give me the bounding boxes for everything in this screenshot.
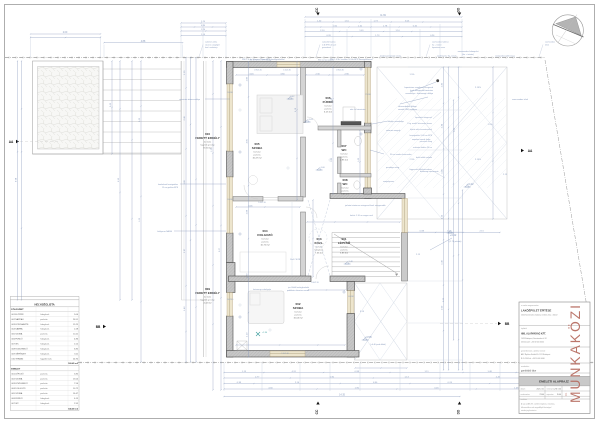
svg-text:parafogo reteg: parafogo reteg — [386, 166, 399, 169]
svg-text:parketta: parketta — [40, 382, 48, 385]
svg-text:parketta: parketta — [340, 248, 348, 251]
svg-text:WC: WC — [342, 148, 348, 152]
svg-text:1.5%: 1.5% — [488, 124, 493, 126]
svg-text:lefolyo osszefolyo: lefolyo osszefolyo — [388, 121, 405, 123]
extension lines bottom dims — [223, 363, 225, 392]
svg-text:1.85 m2: 1.85 m2 — [341, 193, 350, 195]
svg-text:(+0.40 jarda fölött): (+0.40 jarda fölött) — [370, 343, 386, 346]
svg-text:003 KÖZLEKEDŐ: 003 KÖZLEKEDŐ — [12, 382, 29, 385]
window above stairs wall — [402, 199, 408, 233]
svg-text:2.5%: 2.5% — [410, 159, 415, 161]
mid-left vertical chains — [131, 61, 133, 300]
svg-text:15.25: 15.25 — [73, 324, 79, 326]
svg-text:EMELET: EMELET — [11, 369, 21, 371]
roof drain dot — [436, 79, 439, 82]
leader lines — [205, 98, 230, 100]
svg-text:É-04: É-04 — [557, 393, 561, 396]
wall: interior vertical 005/006 — [301, 68, 306, 123]
svg-text:6.15 m2: 6.15 m2 — [324, 111, 333, 113]
terrace step dim lines — [111, 61, 113, 154]
svg-text:001 LÉPCSŐ: 001 LÉPCSŐ — [12, 372, 24, 375]
svg-text:lasd: reszletrajz: lasd: reszletrajz — [205, 46, 218, 49]
svg-text:attic fal vizszintes: attic fal vizszintes — [350, 108, 366, 111]
faint line in 004 — [291, 202, 293, 276]
svg-text:WC: WC — [343, 182, 349, 186]
far right vertical chain — [492, 67, 494, 219]
svg-text:M 1:50: M 1:50 — [556, 389, 562, 391]
window in top wall — [277, 62, 300, 67]
svg-text:É 01-2345 tel: +36 20 000 000: É 01-2345 tel: +36 20 000 0000 — [521, 357, 545, 360]
svg-text:hidegburk.: hidegburk. — [40, 339, 50, 341]
svg-text:EMELETI ALAPRAJZ: EMELETI ALAPRAJZ — [539, 380, 569, 384]
svg-text:parketta: parketta — [340, 155, 348, 158]
svg-text:1039 Budapest, Szentendrei út: 1039 Budapest, Szentendrei út 32. — [521, 337, 548, 340]
desk room 004 — [240, 252, 286, 272]
svg-text:gerendaval: gerendaval — [322, 47, 331, 49]
wall: 003-002 horizontal right part — [330, 276, 365, 282]
svg-text:a munka megnevezése:: a munka megnevezése: — [521, 305, 539, 307]
svg-text:0.90/2.10: 0.90/2.10 — [311, 282, 319, 284]
svg-text:hidegburk.: hidegburk. — [40, 348, 50, 350]
svg-text:szomszedos lakoepulet: szomszedos lakoepulet — [458, 50, 479, 53]
svg-text:BB: BB — [96, 325, 101, 329]
svg-text:1.00/2.10: 1.00/2.10 — [258, 202, 266, 204]
stairs treads room 001 — [332, 232, 400, 234]
svg-text:epulet kontur fsz. vonala: epulet kontur fsz. vonala — [437, 54, 456, 57]
windows right wall — [365, 68, 371, 124]
svg-text:5.85 m2: 5.85 m2 — [340, 252, 349, 254]
svg-text:parketta: parketta — [40, 392, 48, 395]
wall: 007/008 divider — [340, 174, 371, 178]
svg-text:parketta: parketta — [40, 387, 48, 390]
corridor diagonal dashes — [308, 200, 330, 276]
wall: 005/004 horizontal — [233, 197, 263, 202]
svg-text:meglevo terepszint vonala: meglevo terepszint vonala — [380, 54, 401, 57]
svg-text:010 TERASZ: 010 TERASZ — [12, 357, 25, 360]
horizontal chains inside — [236, 74, 298, 76]
svg-text:2.95 m2: 2.95 m2 — [340, 159, 349, 161]
svg-text:16.47: 16.47 — [73, 393, 79, 395]
bed room 005 — [257, 95, 303, 134]
section marker AA right — [521, 149, 524, 152]
svg-text:DD: DD — [457, 7, 461, 12]
terrace steps — [103, 68, 181, 70]
svg-text:fagyálló burk.: fagyálló burk. — [40, 358, 52, 360]
wall: WC left vertical — [338, 130, 342, 147]
svg-text:+2.94: +2.94 — [262, 332, 268, 334]
svg-text:szomszedos telek hatara: szomszedos telek hatara — [495, 54, 515, 57]
svg-text:146.48 m2: 146.48 m2 — [68, 407, 79, 410]
svg-text:vasbeton attika: vasbeton attika — [205, 41, 217, 44]
svg-text:007 WC: 007 WC — [12, 403, 20, 405]
svg-text:002 SZOBA: 002 SZOBA — [12, 377, 23, 380]
svg-text:150/240: 150/240 — [227, 299, 234, 301]
svg-text:2000 Szentendre, Kálvária út 1: 2000 Szentendre, Kálvária út 162/a hrsz.… — [521, 314, 557, 317]
svg-text:fsz + tetoter: fsz + tetoter — [432, 43, 442, 46]
svg-text:007 WC: 007 WC — [12, 344, 20, 346]
svg-text:munkaszám:: munkaszám: — [521, 394, 531, 396]
svg-text:90/240: 90/240 — [227, 199, 233, 201]
chimney notch — [364, 188, 372, 194]
svg-text:burkolat: burkolat — [340, 153, 348, 156]
top-right dim chains — [305, 16, 462, 18]
svg-text:CC: CC — [315, 7, 319, 12]
svg-text:008 KÖZLEKEDŐ: 008 KÖZLEKEDŐ — [12, 347, 29, 350]
svg-text:burkolat: burkolat — [204, 296, 212, 299]
windows in left wall — [227, 84, 233, 151]
door arcs — [244, 185, 258, 199]
svg-text:parketta: parketta — [324, 107, 332, 110]
svg-text:párazáró réteg: párazáró réteg — [420, 140, 432, 143]
window bottom wall — [270, 351, 305, 357]
svg-text:burkolat: burkolat — [253, 151, 261, 154]
svg-text:hidegburk.: hidegburk. — [40, 324, 50, 326]
svg-text:(-1.76 jarhato): (-1.76 jarhato) — [449, 240, 462, 243]
svg-text:15 cm grafitos EPS: 15 cm grafitos EPS — [162, 186, 179, 189]
svg-text:vasbeton födém 20 cm: vasbeton födém 20 cm — [413, 146, 433, 149]
svg-text:lapostetö rétegrend:: lapostetö rétegrend: — [415, 116, 432, 119]
svg-text:hidegburk.: hidegburk. — [40, 329, 50, 331]
svg-text:jarhato tetoterasz retegrend l: jarhato tetoterasz retegrend lasd: reteg… — [344, 204, 386, 207]
extension lines top dims — [304, 19, 306, 57]
svg-text:0.90/2.40: 0.90/2.40 — [336, 70, 344, 72]
svg-text:rajzszám:: rajzszám: — [547, 393, 555, 396]
svg-text:parketta: parketta — [40, 333, 48, 336]
svg-text:24.90: 24.90 — [73, 358, 79, 360]
svg-text:vizorros szegellyel: vizorros szegellyel — [205, 44, 220, 46]
svg-text:004 DOLGOZÓ: 004 DOLGOZÓ — [12, 387, 26, 390]
roof diagonals — [377, 67, 507, 219]
wall stub below 002 right — [347, 282, 355, 291]
compass north symbol — [552, 15, 583, 46]
svg-text:10.72 m2: 10.72 m2 — [260, 244, 270, 246]
svg-text:002 NAPPALI: 002 NAPPALI — [12, 318, 25, 321]
wall: top exterior — [227, 62, 372, 68]
svg-text:(fsz + tetoter): (fsz + tetoter) — [462, 53, 474, 56]
svg-text:10.72: 10.72 — [73, 388, 79, 390]
door frame lines 005/004 — [263, 197, 278, 199]
svg-text:szomszedos lakohaz: szomszedos lakohaz — [432, 42, 449, 44]
svg-text:LÉPCSŐ: LÉPCSŐ — [338, 240, 351, 245]
svg-text:tervfázis:: tervfázis: — [521, 398, 528, 401]
svg-text:2 db IPE 140 acel: 2 db IPE 140 acel — [322, 44, 337, 46]
vanity bar bathroom — [341, 122, 361, 126]
room list table — [10, 295, 79, 297]
svg-text:15.04 m2: 15.04 m2 — [293, 317, 303, 319]
svg-text:hoszigetelés 2x10 cm EPS: hoszigetelés 2x10 cm EPS — [410, 134, 433, 137]
title block frame — [519, 302, 590, 414]
svg-text:munkatárs:: munkatárs: — [521, 365, 530, 368]
svg-text:hidegburk.: hidegburk. — [40, 403, 50, 405]
svg-text:lefolyocso NA100: lefolyocso NA100 — [157, 230, 172, 233]
svg-text:16.47 m2: 16.47 m2 — [252, 157, 262, 159]
balcony edge lines — [181, 61, 183, 300]
svg-text:villamvedelem: felfogo: villamvedelem: felfogo — [398, 106, 417, 108]
svg-text:005 SZOBA: 005 SZOBA — [12, 392, 23, 395]
svg-text:függesztett lefolyórendszer: függesztett lefolyórendszer — [409, 168, 432, 171]
svg-text:1.50/2.40: 1.50/2.40 — [283, 70, 291, 72]
title block date/scale rows — [544, 386, 546, 399]
svg-text:AA: AA — [9, 140, 14, 144]
svg-text:ABC Építész Stúdió Kft. 1111 B: ABC Építész Stúdió Kft. 1111 Budapest — [521, 353, 551, 356]
small corner crosses — [238, 109, 242, 111]
svg-text:parketta: parketta — [341, 189, 349, 192]
title block drawing name band — [519, 376, 590, 386]
svg-text:11.69: 11.69 — [380, 15, 386, 17]
lower terrace outline — [355, 283, 408, 360]
section marker BB right — [498, 322, 501, 325]
svg-text:50 cm szeles kavicsolas: 50 cm szeles kavicsolas — [390, 154, 411, 156]
svg-text:parketta: parketta — [40, 377, 48, 380]
wall: 006/007 divider — [318, 126, 371, 130]
svg-text:005 SZOBA: 005 SZOBA — [12, 333, 23, 336]
wall: stairs top horizontal — [330, 194, 405, 199]
svg-text:jav. 60x60 melegburkolat: jav. 60x60 melegburkolat — [287, 286, 309, 289]
svg-text:+3.42: +3.42 — [450, 233, 457, 237]
svg-text:szegelyezes: szegelyezes — [383, 181, 394, 183]
svg-text:burkolat: burkolat — [324, 105, 332, 108]
extension lines right dims — [408, 66, 462, 68]
bottom dim chains — [224, 372, 556, 374]
window sill marks blue — [238, 84, 242, 86]
svg-text:szomszedos telek: szomszedos telek — [512, 98, 528, 101]
svg-text:burkolat: burkolat — [294, 311, 302, 314]
terrace hatched area — [33, 61, 104, 154]
left vertical dim chains — [17, 61, 19, 300]
chains through rooms — [248, 62, 250, 358]
svg-text:DD: DD — [457, 409, 461, 414]
svg-text:ketszarnyu erkelyajto: ketszarnyu erkelyajto — [253, 288, 271, 291]
svg-text:hidegburk.: hidegburk. — [40, 314, 50, 316]
svg-text:parketta: parketta — [40, 372, 48, 375]
svg-text:2021. 03.: 2021. 03. — [537, 389, 545, 391]
svg-text:2.10/2.40: 2.10/2.40 — [281, 353, 289, 355]
flat roof outline right — [377, 67, 507, 219]
svg-text:FÖLDSZINT: FÖLDSZINT — [11, 308, 24, 311]
svg-text:16x17.6/28: 16x17.6/28 — [290, 259, 301, 261]
svg-text:dátum:: dátum: — [521, 388, 527, 391]
svg-text:gombkötő tibor: gombkötő tibor — [521, 370, 536, 373]
svg-text:30 vb. fal + 15 EPS hoszig.: 30 vb. fal + 15 EPS hoszig. — [250, 59, 272, 61]
svg-text:hidegburk.: hidegburk. — [40, 398, 50, 400]
svg-text:006 FÜRDŐ: 006 FÜRDŐ — [12, 397, 23, 400]
svg-text:CC: CC — [315, 409, 319, 414]
svg-text:KÖZL.: KÖZL. — [315, 240, 324, 245]
svg-text:D.: D. — [564, 392, 568, 395]
svg-text:75/240: 75/240 — [365, 94, 371, 96]
inner-left vertical chains — [212, 61, 214, 390]
svg-text:AA: AA — [528, 149, 533, 153]
teal level mark 002 — [256, 332, 260, 336]
section trace lines — [20, 141, 60, 143]
svg-text:15.04: 15.04 — [73, 378, 79, 380]
svg-text:parketta: parketta — [40, 318, 48, 321]
svg-text:BB: BB — [505, 322, 510, 326]
svg-text:telek: telek — [545, 43, 549, 46]
svg-text:4.42 m2: 4.42 m2 — [204, 302, 213, 304]
svg-text:004 KAMRA: 004 KAMRA — [12, 328, 24, 331]
svg-text:R90 1.0 vb. koszoru 10 cm EPS: R90 1.0 vb. koszoru 10 cm EPS hoszigetel… — [330, 58, 373, 61]
svg-text:009 GÉPÉSZET: 009 GÉPÉSZET — [12, 352, 27, 355]
svg-text:belső oldali vakolat: belső oldali vakolat — [416, 156, 432, 159]
svg-text:parketta: parketta — [294, 313, 302, 316]
svg-text:építtető:: építtető: — [521, 327, 528, 330]
svg-text:26.51: 26.51 — [73, 319, 79, 321]
svg-text:2 rtg. modif. bitumenes lemez: 2 rtg. modif. bitumenes lemez — [407, 122, 432, 125]
svg-text:HNL ALAPANYAG KFT.: HNL ALAPANYAG KFT. — [521, 333, 546, 336]
wall: left exterior segments — [227, 62, 234, 85]
svg-text:006 FÜRDŐ: 006 FÜRDŐ — [12, 338, 23, 341]
svg-text:hidegburk.: hidegburk. — [40, 344, 50, 346]
bed room 002 — [248, 291, 284, 324]
svg-text:2.15%: 2.15% — [475, 87, 481, 89]
svg-text:160.45 m2: 160.45 m2 — [68, 362, 79, 365]
property fence line top — [5, 57, 545, 59]
svg-text:vizszintes tetoosszefolyo: vizszintes tetoosszefolyo — [179, 98, 200, 101]
crossed shaft box 002 — [237, 341, 247, 350]
svg-text:1.5%: 1.5% — [410, 74, 415, 76]
svg-text:osszefolyo + biztonsagi tulfol: osszefolyo + biztonsagi tulfolyo — [405, 92, 434, 95]
svg-text:DOLGOZÓ: DOLGOZÓ — [257, 232, 273, 237]
svg-text:parketta: parketta — [253, 153, 261, 156]
wall right of 002 lower — [347, 314, 355, 358]
right area vertical chains — [443, 67, 445, 370]
svg-text:SZOBA: SZOBA — [293, 306, 304, 310]
svg-text:burkolat: burkolat — [341, 187, 349, 190]
svg-text:003 KONYHA-ÉTK.: 003 KONYHA-ÉTK. — [12, 323, 30, 326]
svg-text:21/04: 21/04 — [540, 394, 545, 396]
svg-text:R90 1.0 vb. koszoru: R90 1.0 vb. koszoru — [318, 59, 334, 61]
section marker DD bottom — [458, 402, 461, 405]
svg-text:generáltervező - építész terve: generáltervező - építész tervező: — [521, 349, 546, 352]
svg-text:001 ELŐTÉR: 001 ELŐTÉR — [12, 313, 24, 316]
svg-text:burkolat: burkolat — [261, 238, 269, 241]
svg-text:90/240: 90/240 — [227, 92, 233, 94]
stairs walk line — [334, 234, 398, 274]
chair room 005 — [249, 176, 258, 185]
horizontal chain right of stairs — [408, 231, 500, 233]
svg-text:burkolat: burkolat — [204, 141, 212, 144]
svg-text:7.56 m2: 7.56 m2 — [315, 252, 324, 254]
svg-text:4.88: 4.88 — [141, 41, 146, 43]
svg-text:padlofutes kiosztas szerint: padlofutes kiosztas szerint — [287, 289, 310, 292]
wall: 004/002 horizontal — [229, 276, 312, 282]
svg-text:vizorros szegely: vizorros szegely — [386, 130, 400, 132]
svg-text:14.35: 14.35 — [339, 395, 345, 397]
svg-text:valaszfal kivaltas: valaszfal kivaltas — [322, 41, 336, 44]
section marker CC bottom — [316, 402, 319, 405]
svg-text:FEDETT ERKÉLY: FEDETT ERKÉLY — [195, 135, 219, 140]
property fence line bottom — [78, 362, 594, 364]
level marker flags — [448, 231, 452, 233]
svg-text:parketta: parketta — [261, 240, 269, 243]
svg-text:MUNKAKÖZI: MUNKAKÖZI — [566, 303, 583, 403]
bath fixtures — [343, 107, 355, 121]
top mid-left chains — [181, 22, 226, 24]
svg-text:SZOBA: SZOBA — [252, 146, 263, 150]
svg-text:FEDETT ERKÉLY: FEDETT ERKÉLY — [195, 290, 219, 295]
svg-text:lapostetos resze: lapostetos resze — [432, 46, 445, 49]
balcony railing — [203, 61, 205, 357]
svg-text:60/240: 60/240 — [348, 296, 354, 298]
window right wall 002 — [348, 291, 355, 314]
wall: bottom exterior — [227, 351, 360, 358]
svg-text:burkolat: burkolat — [340, 246, 348, 249]
property boundary diagonal right — [545, 60, 587, 307]
svg-text:lejtést adó cementesztrich: lejtést adó cementesztrich — [410, 128, 432, 131]
svg-text:szomszedos: szomszedos — [545, 42, 555, 44]
svg-text:telefonszám: +36 30 000 0000: telefonszám: +36 30 000 0000 — [521, 341, 544, 344]
stairs right wall lined — [402, 233, 408, 282]
top-left dim chain — [31, 33, 101, 35]
svg-text:0.90/2.40: 0.90/2.40 — [254, 70, 262, 72]
svg-text:2.00: 2.00 — [63, 32, 68, 34]
balcony bottom connector — [182, 299, 207, 301]
svg-text:korlat: 1.10 m magas acel: korlat: 1.10 m magas acel — [350, 214, 373, 217]
svg-text:2.15%: 2.15% — [475, 159, 481, 161]
svg-text:homlokzati hoszigeteles: homlokzati hoszigeteles — [158, 183, 178, 186]
svg-text:hidegburk.: hidegburk. — [40, 353, 50, 355]
left wall pier — [227, 263, 236, 293]
svg-text:vezetok OBO rendszer: vezetok OBO rendszer — [398, 108, 417, 111]
wall: right exterior upper — [365, 62, 372, 68]
